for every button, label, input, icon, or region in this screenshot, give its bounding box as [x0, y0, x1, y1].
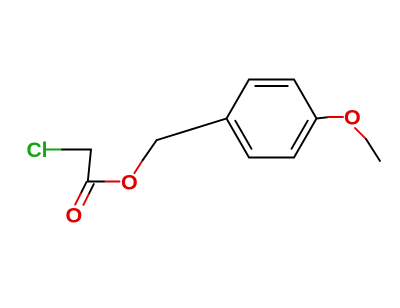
wire CH2-C bond: [88, 150, 91, 182]
aromatic inner line R-BR: [292, 121, 308, 149]
wire O-CH3 bond (red half): [355, 128, 366, 139]
svg-text:Cl: Cl: [27, 139, 48, 162]
wire CH2-ring bond: [192, 119, 227, 130]
wire Cl-CH2 bond (black half): [62, 149, 91, 151]
carbonyl C=O double bond right line: [89, 184, 94, 194]
wire O-CH2 bond (red half): [134, 160, 142, 173]
svg-text:O: O: [121, 170, 138, 194]
wire O-CH2 bond (black half): [143, 140, 157, 160]
aromatic inner line TL-TR: [255, 85, 287, 87]
aromatic inner line BL-L: [235, 121, 251, 149]
wire Cl-CH2 bond (green half): [47, 149, 63, 151]
benzene ring: [227, 80, 317, 158]
ester C-O bond: [88, 181, 106, 183]
svg-text:O: O: [66, 203, 83, 227]
svg-text:O: O: [344, 106, 361, 130]
wire O-CH3 bond (black half): [366, 139, 380, 161]
ring-OMe bond (red half): [328, 116, 343, 118]
wire CH2-CH2 bond: [157, 129, 192, 140]
ring-OMe bond (black half): [317, 117, 329, 118]
carbonyl C=O double bond left line: [81, 182, 87, 193]
